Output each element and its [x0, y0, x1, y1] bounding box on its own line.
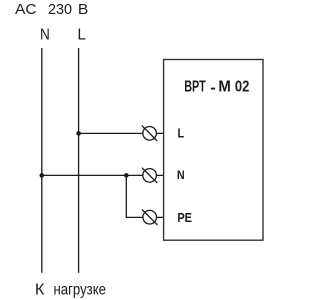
terminal X3 PE: circle with slash [142, 210, 157, 225]
terminal X1 L: circle with slash [142, 126, 157, 141]
svg-text:ВРТ: ВРТ [184, 77, 205, 94]
svg-text:К: К [35, 282, 45, 298]
svg-text:L: L [177, 127, 184, 141]
wire from L to terminal L [79, 132, 164, 134]
wire N vertical [41, 48, 43, 273]
svg-text:-: - [210, 80, 216, 96]
label AC 230 V supply [15, 2, 88, 18]
svg-text:N: N [40, 27, 50, 44]
svg-text:L: L [77, 27, 86, 44]
wire from N to terminal N [42, 174, 164, 176]
device U1 enclosure box [164, 60, 263, 241]
terminal X2 N: circle with slash [142, 168, 157, 183]
svg-text:PE: PE [177, 210, 192, 225]
svg-text:230: 230 [48, 2, 72, 18]
svg-text:AC: AC [15, 2, 37, 18]
wire L vertical [78, 48, 80, 273]
junction dot on N wire [40, 173, 45, 178]
svg-text:В: В [78, 2, 88, 18]
svg-text:нагрузке: нагрузке [53, 281, 106, 298]
junction dot on N-PE branch [124, 173, 129, 178]
device U1 label BPT-M 02 [184, 77, 249, 96]
svg-text:N: N [177, 168, 185, 182]
svg-text:М: М [218, 78, 230, 95]
wire branch from N down to terminal PE [126, 175, 163, 217]
svg-text:02: 02 [235, 78, 250, 95]
junction dot on L wire [76, 131, 81, 136]
